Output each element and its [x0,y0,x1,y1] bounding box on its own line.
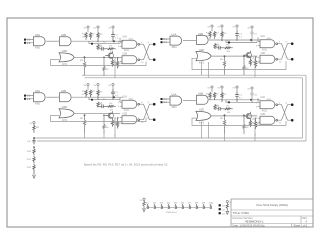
diode D8 [196,204,198,209]
svg-text:4538MONO-1: 4538MONO-1 [245,220,264,224]
channel 3 feedback loop [51,116,147,122]
power symbol 5V [33,121,35,123]
svg-text:Date: 11/06/2013 09:08:02a: Date: 11/06/2013 09:08:02a [233,223,266,227]
channel 1 timing RC [97,45,116,54]
channel 1 bus drops [80,56,115,77]
channel 1 input gates [24,34,45,50]
junction [33,146,35,148]
channel 4 timing RC [214,105,233,114]
terminal dots near title block [219,204,226,215]
svg-text:D6: D6 [181,203,185,205]
resistor R9 [33,124,35,133]
diode D5 [175,204,177,209]
channel 1 interstage wire [46,40,59,42]
feedback bus C [34,78,303,138]
channel 4 logic gates [196,93,260,125]
channel 2 timing RC [214,44,233,53]
feedback bus B [37,75,306,141]
svg-text:R11: R11 [27,159,32,161]
channel 1 logic gates [59,34,123,66]
svg-text:C6: C6 [254,95,258,97]
capacitor C4 [32,138,35,145]
ground arrow [226,211,229,214]
svg-text:D2: D2 [153,203,157,205]
junction [33,137,35,139]
channel 4 bus drops [220,114,255,135]
row2 drop extensions [85,134,116,138]
title block [231,199,313,227]
diode D1 [147,204,149,209]
svg-text:D10: D10 [209,203,214,205]
channel 1 feedback loop [51,60,147,66]
resistor R11 [33,156,35,163]
title block row lines [231,210,313,227]
svg-text:Sheet 1 of 1: Sheet 1 of 1 [294,223,309,227]
row2 left supply chain [27,121,40,178]
channel 3 RC section [82,83,119,101]
channel 4 input gates [161,93,182,109]
ground arrow [143,209,146,212]
resistor R20 [143,200,145,208]
channel 2 bus drops [220,55,255,76]
svg-text:D5: D5 [174,203,178,205]
channel 3 output section [106,96,156,129]
channel 2 feedback loop [192,58,286,69]
resistor R12 [33,164,35,174]
diode D6 [182,204,184,209]
bottom middle diode chain [140,198,214,214]
svg-text:R10: R10 [27,151,32,153]
svg-text:Based las R5, R9, P13, R17 od: Based las R5, R9, P13, R17 od 1 i 04, 20… [84,162,168,166]
svg-text:5V: 5V [248,89,251,91]
svg-text:D3: D3 [160,203,164,205]
svg-text:TITLE: KSMH: TITLE: KSMH [233,211,250,215]
channel 2 extra drop [201,62,203,75]
channel 2 extra drops [208,62,210,78]
diode D2 [154,204,156,209]
power symbol 5V [143,198,145,200]
right small supply column [226,200,233,214]
resistor [226,203,228,211]
diode D9 [203,204,205,209]
channel 2 cap post C5 [248,26,258,42]
svg-text:D9: D9 [202,203,206,205]
channel 3 timing RC [97,102,116,111]
diode D10 [210,204,212,209]
chain wire [146,206,211,208]
svg-text:Q1: Q1 [222,205,226,207]
svg-text:1N4148 x9: 1N4148 x9 [166,212,177,214]
diode D3 [161,204,163,209]
svg-text:Q2: Q2 [222,209,226,211]
channel 3 bus drops [80,114,115,135]
channel 2 input gates [161,33,182,49]
channel 3 interstage wire [46,96,59,98]
row2 right drop extensions [225,133,256,141]
svg-text:5V: 5V [140,200,143,202]
channel 4 RC section [206,86,243,104]
channel 4 interstage wire [183,100,197,102]
svg-text:C5: C5 [254,34,258,36]
channel 1 output section [106,36,156,69]
channel 3 input gates [24,90,45,106]
channel 4 cap post C6 [248,87,258,103]
channel 2 RC section [206,25,243,43]
resistor R10 [33,147,35,155]
svg-text:D8: D8 [195,203,199,205]
channel 2 logic gates [196,33,260,65]
power symbol 5V [226,200,228,202]
channel 2 output section [244,35,294,68]
svg-text:5V: 5V [248,28,251,30]
svg-text:1uF: 1uF [27,141,31,143]
svg-text:5V: 5V [30,123,33,125]
diode D7 [189,204,191,209]
svg-text:A: A [306,221,308,224]
channel 4 feedback loop [192,118,286,125]
channel 1 RC section [82,26,119,44]
diode D4 [168,204,170,209]
svg-text:One-Shot Delay (KMA): One-Shot Delay (KMA) [256,203,288,207]
ground arrow [33,175,36,178]
channel 4 extra drops [202,122,209,138]
svg-text:R9: R9 [36,127,40,129]
title block outline [231,199,313,227]
channel 2 interstage wire [183,40,197,42]
channel 3 logic gates [59,90,123,122]
channel 4 output section [244,96,294,129]
svg-text:D1: D1 [146,203,150,205]
svg-text:D7: D7 [188,203,192,205]
svg-text:R12: R12 [27,167,32,169]
svg-text:Q3: Q3 [222,213,226,215]
svg-text:D4: D4 [167,203,171,205]
